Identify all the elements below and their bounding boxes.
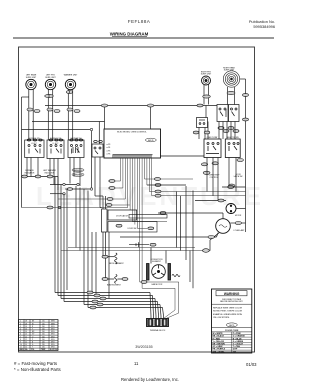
svg-text:200: 200 xyxy=(42,326,45,328)
connector on indicator row 1 xyxy=(22,175,28,178)
left long vertical bundle xyxy=(55,177,88,308)
connector on top bus right xyxy=(147,104,153,107)
surface unit LR leads xyxy=(28,89,30,140)
svg-text:WARMER SW: WARMER SW xyxy=(71,137,82,140)
svg-text:200: 200 xyxy=(42,339,45,341)
wire chart entries xyxy=(20,321,58,352)
junction node C xyxy=(90,188,92,190)
surface unit left front xyxy=(45,79,55,89)
svg-text:SURFACE SW: SURFACE SW xyxy=(28,137,40,140)
long wires to right side xyxy=(149,191,245,193)
warmer switch xyxy=(68,139,84,158)
svg-text:GY = GRAY: GY = GRAY xyxy=(213,345,224,348)
svg-text:200: 200 xyxy=(42,336,45,338)
svg-text:10: 10 xyxy=(25,344,27,346)
svg-text:G: G xyxy=(32,344,34,346)
svg-text:14: 14 xyxy=(25,331,27,333)
svg-text:INDICATOR: INDICATOR xyxy=(25,171,35,174)
svg-text:1: 1 xyxy=(20,321,21,323)
svg-text:16: 16 xyxy=(25,329,27,331)
junction node B xyxy=(77,183,79,185)
thermostat drop wires xyxy=(195,158,246,201)
svg-text:NOTED FIRST, STRIPE COLOR: NOTED FIRST, STRIPE COLOR xyxy=(213,311,243,313)
svg-text:SRG: SRG xyxy=(51,334,55,336)
svg-text:Rendered by LeadVenture, Inc.: Rendered by LeadVenture, Inc. xyxy=(121,377,179,382)
svg-text:10: 10 xyxy=(25,347,27,349)
connector cluster left of label xyxy=(203,171,210,174)
svg-text:Y: Y xyxy=(32,329,34,331)
surface unit right front xyxy=(202,76,211,85)
oven selector box xyxy=(225,139,240,158)
surface unit left rear xyxy=(26,79,36,89)
EOC relay capsule xyxy=(145,138,156,142)
junction node D xyxy=(63,193,65,195)
connector right rear leads xyxy=(227,91,235,94)
warning body text xyxy=(220,299,243,303)
svg-text:SRG: SRG xyxy=(51,329,55,331)
svg-text:5995384996: 5995384996 xyxy=(253,24,275,29)
connector row under warmer xyxy=(67,108,80,113)
svg-text:COL: COL xyxy=(31,349,34,351)
svg-text:200: 200 xyxy=(42,334,45,336)
surface unit right rear (dual) xyxy=(223,71,239,87)
connector y213 xyxy=(155,194,161,197)
wires switches to oven controls xyxy=(161,79,246,232)
svg-text:BR: BR xyxy=(32,331,35,333)
EOC drop wires from top bus xyxy=(105,106,151,130)
svg-text:2: 2 xyxy=(20,323,21,325)
warmer indicator lamp capsule 1 xyxy=(72,168,84,172)
connector on right vertical y95 xyxy=(243,94,249,97)
svg-text:10: 10 xyxy=(20,344,22,346)
svg-text:SRG: SRG xyxy=(51,331,55,333)
warning box xyxy=(212,289,252,353)
connector bake left xyxy=(102,278,108,281)
svg-text:P: P xyxy=(32,339,33,341)
connector lamp right xyxy=(235,222,241,225)
connectors under thermostat xyxy=(201,159,243,166)
svg-text:# = Fast-moving Parts: # = Fast-moving Parts xyxy=(14,361,58,366)
svg-text:WARNING: WARNING xyxy=(224,292,240,296)
convection fan motor xyxy=(147,264,171,281)
connector at fuse xyxy=(150,243,156,246)
warmer unit leads xyxy=(67,89,69,140)
svg-text:WARMER IND: WARMER IND xyxy=(73,174,84,177)
infinite switch LF xyxy=(47,139,64,159)
svg-text:W: W xyxy=(32,323,34,325)
fan feed stubs xyxy=(147,185,193,288)
wire runs leaving ribbon left xyxy=(108,180,121,182)
connector on wire y186.7 xyxy=(109,187,115,190)
svg-text:6: 6 xyxy=(20,334,21,336)
EOC connector comb P1 xyxy=(113,155,153,158)
header rule xyxy=(13,37,274,39)
svg-text:OVEN T-STAT: OVEN T-STAT xyxy=(207,136,218,139)
svg-text:4: 4 xyxy=(20,329,21,331)
svg-text:W. STYLE: W. STYLE xyxy=(50,349,57,351)
svg-text:GY: GY xyxy=(32,334,35,336)
svg-text:GR/YL: GR/YL xyxy=(229,325,235,327)
connector on top bus left xyxy=(101,104,107,107)
svg-text:DOOR SW: DOOR SW xyxy=(128,228,137,230)
connector on wire y194.6 xyxy=(107,198,113,201)
oven fan motor M xyxy=(226,204,236,214)
svg-text:A03-35: A03-35 xyxy=(148,139,153,142)
svg-text:DOOR LATCH: DOOR LATCH xyxy=(116,215,128,218)
svg-text:W/B = WH/BL: W/B = WH/BL xyxy=(213,351,226,353)
svg-text:WARMER IND: WARMER IND xyxy=(73,169,84,172)
connector broil xyxy=(102,255,108,258)
svg-text:FEFL88A: FEFL88A xyxy=(128,19,151,24)
svg-text:105: 105 xyxy=(42,323,45,325)
connector pair on warmer leads xyxy=(66,91,72,94)
bottom bus wires xyxy=(55,293,164,319)
svg-text:3: 3 xyxy=(20,326,21,328)
lamp wires xyxy=(120,213,246,251)
svg-text:SELECTOR SW: SELECTOR SW xyxy=(226,137,239,139)
connector right front leads xyxy=(203,95,211,98)
connector y187 top xyxy=(228,186,234,189)
connector row under LR xyxy=(27,108,40,113)
svg-text:BK: BK xyxy=(32,321,35,323)
svg-text:18: 18 xyxy=(25,323,27,325)
wire horizontal y131 xyxy=(22,129,92,131)
connector on wire y207.5 xyxy=(47,206,53,209)
connector under relay right xyxy=(204,131,210,134)
svg-text:200: 200 xyxy=(42,331,45,333)
latch solenoid bar xyxy=(129,215,167,219)
svg-text:SRG: SRG xyxy=(51,344,55,346)
svg-text:EXAMPLE: GREEN WIRE WITH: EXAMPLE: GREEN WIRE WITH xyxy=(213,313,243,316)
svg-text:● P4: ● P4 xyxy=(107,147,111,149)
svg-text:COLOR CODE: COLOR CODE xyxy=(225,330,239,332)
svg-text:TERMINAL BLOCK: TERMINAL BLOCK xyxy=(150,329,166,332)
svg-text:GY/P: GY/P xyxy=(233,349,238,351)
right surface switch 1 xyxy=(217,105,228,122)
warmer unit xyxy=(65,79,75,89)
svg-text:8: 8 xyxy=(20,339,21,341)
svg-text:11: 11 xyxy=(134,361,139,366)
svg-text:250: 250 xyxy=(42,347,45,349)
svg-text:B: B xyxy=(32,342,33,344)
svg-text:O: O xyxy=(32,336,34,338)
svg-text:14: 14 xyxy=(25,334,27,336)
svg-text:T = TAN: T = TAN xyxy=(233,345,241,348)
svg-text:SRG: SRG xyxy=(51,336,55,338)
bake element xyxy=(108,275,122,284)
connector y200.5 xyxy=(218,199,224,202)
svg-text:7: 7 xyxy=(20,336,21,338)
right unit leads xyxy=(204,85,235,105)
svg-text:SRG: SRG xyxy=(51,342,55,344)
broil element xyxy=(108,253,117,264)
svg-text:O = ORANGE: O = ORANGE xyxy=(233,335,246,338)
svg-text:CONTROL: CONTROL xyxy=(210,177,219,179)
oven lamp xyxy=(216,219,231,234)
svg-text:BK = BLACK: BK = BLACK xyxy=(213,335,225,338)
svg-text:R: R xyxy=(32,326,34,328)
junction node A xyxy=(63,183,65,185)
oven light relay box xyxy=(197,118,208,128)
wire vertical from node x91.5 xyxy=(91,130,93,190)
svg-text:SRG: SRG xyxy=(51,347,55,349)
svg-text:BEFORE SERVICING UNIT.: BEFORE SERVICING UNIT. xyxy=(220,301,243,303)
ribbon cable from EOC xyxy=(22,158,246,319)
connector y228.3 xyxy=(148,227,154,230)
svg-text:12: 12 xyxy=(25,339,27,341)
svg-text:SURF. UNIT: SURF. UNIT xyxy=(45,77,56,79)
wire chart table xyxy=(19,320,59,351)
svg-text:SURF. UNIT: SURF. UNIT xyxy=(224,70,235,72)
connector fan feed y282 xyxy=(141,281,147,284)
surface unit LF leads xyxy=(47,89,49,140)
connector on wire y179.8 xyxy=(109,180,115,183)
left inner vertical wire xyxy=(21,97,23,208)
thermal fuse xyxy=(129,242,149,247)
motor right lead xyxy=(236,208,246,210)
svg-text:12: 12 xyxy=(25,336,27,338)
junction row wires xyxy=(50,184,77,186)
wires below left switches xyxy=(22,157,101,290)
svg-text:● P5: ● P5 xyxy=(107,150,111,152)
connectors on bottom bus xyxy=(87,291,106,309)
connector y185.6 xyxy=(229,184,235,187)
svg-text:250: 250 xyxy=(42,344,45,346)
terminal block TB xyxy=(147,319,169,327)
svg-text:ELECTRONIC OVEN CONTROL: ELECTRONIC OVEN CONTROL xyxy=(117,131,147,133)
svg-text:L1 H1 P: L1 H1 P xyxy=(31,143,37,145)
connector pair on LF leads xyxy=(45,94,54,97)
connector on wire y205 xyxy=(106,204,112,207)
svg-text:FAN MOTOR: FAN MOTOR xyxy=(152,283,163,286)
door latch assembly box xyxy=(108,210,137,220)
svg-text:SURF. UNIT: SURF. UNIT xyxy=(201,74,212,76)
svg-text:11: 11 xyxy=(20,347,22,349)
svg-text:WIRING DIAGRAM: WIRING DIAGRAM xyxy=(110,32,149,37)
svg-text:18: 18 xyxy=(25,321,27,323)
svg-text:BAKE ELEMENT: BAKE ELEMENT xyxy=(107,284,122,287)
svg-text:10: 10 xyxy=(25,342,27,344)
svg-text:YELLOW STRIPE.: YELLOW STRIPE. xyxy=(213,317,230,319)
door switch box xyxy=(108,222,157,233)
connector right column y201.5 xyxy=(155,190,161,193)
svg-text:SEW: SEW xyxy=(51,323,55,325)
right surface switch 2 xyxy=(229,105,240,122)
connector door switch xyxy=(116,224,122,227)
svg-text:PR = PURPLE: PR = PURPLE xyxy=(213,349,226,351)
color code table xyxy=(213,333,246,353)
oven light switch box xyxy=(92,141,103,158)
oven thermostat box xyxy=(204,139,221,158)
connector y237 xyxy=(208,236,214,239)
svg-text:BROIL ELEMENT: BROIL ELEMENT xyxy=(109,263,124,265)
svg-text:MOTOR: MOTOR xyxy=(235,215,242,217)
wire runs leaving ribbon right xyxy=(133,221,168,223)
infinite switch LR xyxy=(25,139,44,158)
connector row under LF xyxy=(47,108,60,113)
connector on right vertical y119.5 xyxy=(243,118,249,121)
connector right column y196 xyxy=(155,184,161,187)
connector on indicator row 3 xyxy=(47,175,53,178)
indicator row wire xyxy=(22,176,59,178)
connector under relay left xyxy=(193,131,199,134)
main top bus wire L1 xyxy=(45,105,217,107)
warmer indicator lamp capsule 2 xyxy=(72,173,84,177)
svg-text:250: 250 xyxy=(42,342,45,344)
diagram border frame xyxy=(19,47,255,352)
svg-text:SRG: SRG xyxy=(51,339,55,341)
oven sensor coil xyxy=(172,274,180,276)
svg-text:* = Non-Illustrated Parts: * = Non-Illustrated Parts xyxy=(14,367,62,372)
latch relay tall box xyxy=(102,209,108,232)
svg-text:01/03: 01/03 xyxy=(246,362,257,367)
svg-text:● P3: ● P3 xyxy=(107,144,111,146)
connector on indicator row 2 xyxy=(35,175,41,178)
svg-text:200: 200 xyxy=(42,329,45,331)
svg-text:LATCH SW: LATCH SW xyxy=(234,175,243,178)
svg-text:L1 H1 P: L1 H1 P xyxy=(53,143,59,145)
svg-text:REPLACE WIRE: WIRE COLOR: REPLACE WIRE: WIRE COLOR xyxy=(213,306,243,309)
svg-text:9: 9 xyxy=(20,342,21,344)
connector y250.8 xyxy=(203,249,210,253)
svg-text:T: T xyxy=(32,347,33,349)
svg-text:SEW: SEW xyxy=(51,321,55,323)
connector bake right xyxy=(122,278,128,281)
electronic oven control U1 xyxy=(104,129,161,158)
connector right column y190.5 xyxy=(155,178,161,181)
svg-text:SURFACE SW: SURFACE SW xyxy=(50,137,62,140)
svg-text:SRG: SRG xyxy=(51,326,55,328)
svg-text:● P6: ● P6 xyxy=(107,154,111,156)
svg-text:105: 105 xyxy=(42,321,45,323)
svg-text:16: 16 xyxy=(25,326,27,328)
svg-text:ELEMENT: ELEMENT xyxy=(152,261,161,263)
svg-text:3W203155: 3W203155 xyxy=(135,345,152,349)
svg-text:SURF. UNIT: SURF. UNIT xyxy=(26,77,37,79)
svg-text:WARMER UNIT: WARMER UNIT xyxy=(64,74,78,77)
svg-text:# OVEN LAMP: # OVEN LAMP xyxy=(233,229,245,232)
connector rows under right switches xyxy=(218,127,239,133)
middle vertical feeders xyxy=(92,196,109,299)
svg-text:5: 5 xyxy=(20,331,21,333)
